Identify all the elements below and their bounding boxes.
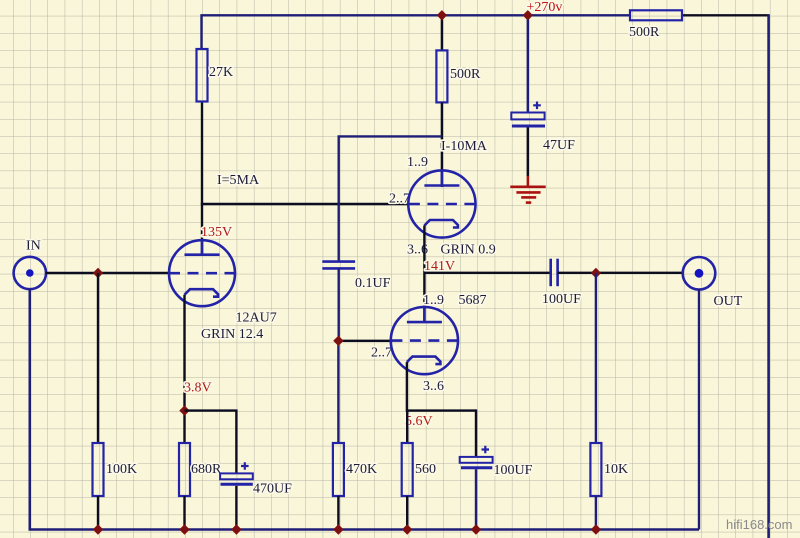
wire IN to V1 grid <box>46 272 170 274</box>
wire V1 cathode down <box>183 295 185 443</box>
capacitor 0.1UF <box>322 262 355 269</box>
triode V1 envelope <box>169 240 235 306</box>
svg-text:5687: 5687 <box>459 293 487 308</box>
junction B+ at 47UF <box>523 10 533 20</box>
svg-text:GRIN 0.9: GRIN 0.9 <box>441 243 496 258</box>
capacitor 470UF <box>220 462 253 484</box>
wire ground lead red <box>527 176 529 187</box>
resistor 500R vertical <box>436 50 447 102</box>
wire 47UF to ground <box>527 128 529 177</box>
wire top rail left segment <box>202 15 631 49</box>
svg-text:135V: 135V <box>201 225 232 240</box>
wire 10K bottom lead <box>595 496 597 530</box>
wire 100UF cathode bypass top lead <box>475 409 477 457</box>
resistor 100K <box>93 443 104 496</box>
svg-text:47UF: 47UF <box>543 138 575 153</box>
svg-text:IN: IN <box>26 239 41 254</box>
junction bottom rail 100K <box>93 524 103 534</box>
svg-text:100UF: 100UF <box>542 292 581 307</box>
svg-text:100UF: 100UF <box>494 463 533 478</box>
wire 47UF top lead <box>527 15 529 112</box>
svg-text:500R: 500R <box>450 67 481 82</box>
svg-text:2..7: 2..7 <box>389 192 410 207</box>
ground symbol <box>510 187 545 203</box>
wire 100K bottom lead <box>97 496 99 530</box>
junction bottom rail 560 <box>402 524 412 534</box>
triode V2 internals <box>409 171 475 228</box>
svg-text:0.1UF: 0.1UF <box>355 276 391 291</box>
wire V3 grid node to 470K <box>337 341 339 443</box>
wire 560 bottom lead <box>406 496 408 530</box>
wire output node to 100UF <box>424 272 550 274</box>
wire 470UF bottom lead <box>235 486 237 530</box>
svg-text:10K: 10K <box>604 462 628 477</box>
resistor 500R horizontal <box>630 10 682 20</box>
capacitor 47UF <box>511 102 545 127</box>
svg-text:OUT: OUT <box>714 294 743 309</box>
junction 10K top <box>591 268 601 278</box>
wire V3 grid entry <box>338 340 392 342</box>
junction bottom rail 10K <box>591 524 601 534</box>
svg-text:12AU7: 12AU7 <box>236 311 277 326</box>
svg-text:1..9: 1..9 <box>407 155 428 170</box>
wire B+ to 500R vertical <box>441 15 443 50</box>
wire 100K top lead <box>97 273 99 443</box>
svg-text:560: 560 <box>415 462 436 477</box>
junction bottom rail 470UF <box>231 524 241 534</box>
wire 100UF bypass bottom lead <box>475 469 477 529</box>
wire 10K top lead <box>595 273 597 443</box>
wire top rail right segment <box>682 14 769 16</box>
svg-text:3.8V: 3.8V <box>184 381 212 396</box>
junction V3 grid node <box>333 336 343 346</box>
triode V3 envelope <box>391 307 458 374</box>
wire node 135V horizontal to V2 grid <box>201 203 409 205</box>
connector IN <box>14 257 46 289</box>
junction bottom rail 100UF <box>471 524 481 534</box>
wire 560 top lead <box>406 411 408 443</box>
wire V3 cathode down <box>406 362 408 412</box>
triode V3 internals <box>391 308 457 364</box>
wire OUT down <box>698 289 700 530</box>
junction 100K top <box>93 268 103 278</box>
wire V2 cathode to V3 anode <box>423 226 425 323</box>
wire 27K bottom to tube V1 anode <box>201 102 203 257</box>
junction B+ at 500R <box>437 10 447 20</box>
resistor 10K <box>590 443 601 496</box>
wire bootstrap anode node to 0.1UF <box>339 136 442 261</box>
svg-text:I-10MA: I-10MA <box>441 139 488 154</box>
svg-text:5.6V: 5.6V <box>405 414 433 429</box>
svg-text:470K: 470K <box>346 462 377 477</box>
svg-text:I=5MA: I=5MA <box>217 173 260 188</box>
wire right edge vertical <box>767 14 770 538</box>
resistor 27K <box>197 49 208 102</box>
svg-text:100K: 100K <box>106 462 137 477</box>
wire 500R to V2 anode <box>441 102 443 187</box>
svg-text:+270v: +270v <box>527 0 563 15</box>
triode V2 envelope <box>408 170 475 237</box>
svg-text:hifi168.com: hifi168.com <box>726 517 792 532</box>
junction bottom rail 470K <box>333 524 343 534</box>
svg-text:470UF: 470UF <box>253 482 292 497</box>
wire 470K bottom lead <box>337 496 339 530</box>
capacitor 100UF output <box>551 259 558 287</box>
wire IN down left edge <box>30 289 699 530</box>
connector OUT <box>683 257 716 290</box>
svg-text:500R: 500R <box>629 25 660 40</box>
junction bottom rail 680R <box>179 524 189 534</box>
wire 0.1UF to V3 grid node <box>338 268 340 341</box>
svg-text:2..7: 2..7 <box>371 346 392 361</box>
wire 3.8V node to 470UF <box>185 411 237 474</box>
wire 100UF to OUT <box>558 272 684 274</box>
triode V1 internals <box>169 241 235 297</box>
svg-text:3..6: 3..6 <box>423 379 444 394</box>
capacitor 100UF cathode bypass <box>460 446 493 468</box>
resistor 470K <box>333 443 344 496</box>
svg-text:27K: 27K <box>209 65 233 80</box>
resistor 560 <box>402 443 413 496</box>
resistor 680R <box>179 443 190 496</box>
junction cathode node 3.8V <box>179 405 189 415</box>
wire 680R bottom lead <box>183 496 185 530</box>
svg-text:680R: 680R <box>191 462 222 477</box>
svg-text:GRIN 12.4: GRIN 12.4 <box>201 327 263 342</box>
wire cathode node 5.6V horizontal <box>407 409 476 411</box>
